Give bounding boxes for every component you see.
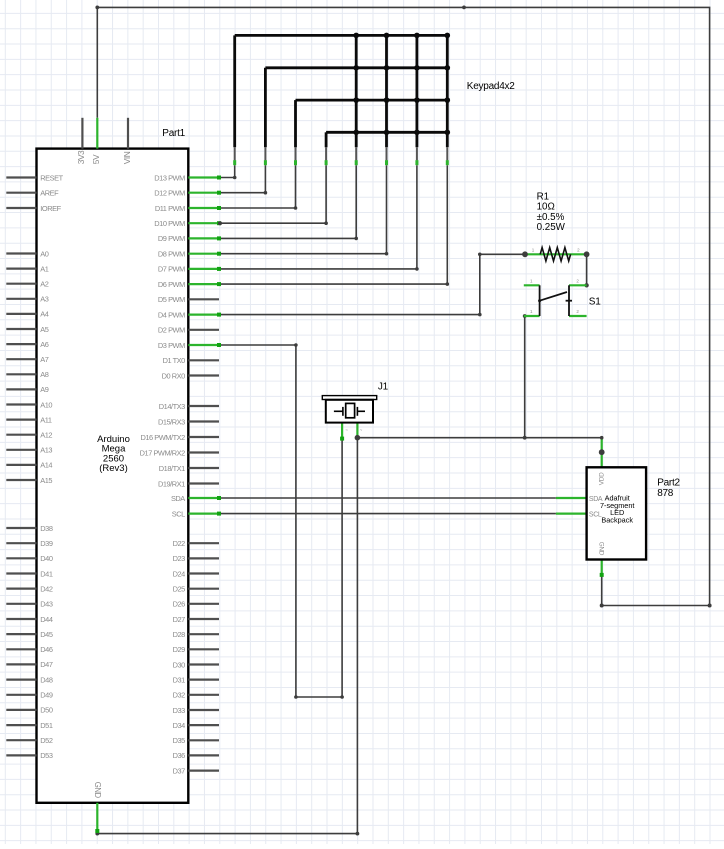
svg-text:D32: D32	[173, 691, 186, 700]
svg-text:A8: A8	[40, 370, 48, 379]
svg-text:A0: A0	[40, 249, 48, 258]
svg-text:D22: D22	[173, 539, 186, 548]
svg-text:D17 PWM/RX2: D17 PWM/RX2	[140, 448, 185, 457]
svg-text:D2 PWM: D2 PWM	[158, 326, 185, 335]
svg-text:D29: D29	[173, 645, 186, 654]
svg-text:A15: A15	[40, 476, 52, 485]
svg-text:A5: A5	[40, 325, 48, 334]
svg-text:A11: A11	[40, 415, 52, 424]
svg-text:D6 PWM: D6 PWM	[158, 280, 185, 289]
svg-text:Backpack: Backpack	[601, 516, 633, 525]
svg-text:D1 TX0: D1 TX0	[163, 356, 186, 365]
svg-text:A4: A4	[40, 310, 48, 319]
svg-text:D23: D23	[173, 554, 186, 563]
svg-text:D13 PWM: D13 PWM	[154, 173, 185, 182]
svg-text:5V: 5V	[91, 154, 101, 164]
svg-text:D11 PWM: D11 PWM	[155, 204, 185, 213]
svg-text:D0 RX0: D0 RX0	[162, 371, 186, 380]
svg-text:D4 PWM: D4 PWM	[158, 310, 185, 319]
svg-text:D19/RX1: D19/RX1	[158, 479, 185, 488]
svg-text:D10 PWM: D10 PWM	[154, 219, 185, 228]
svg-text:D43: D43	[40, 600, 53, 609]
svg-text:D33: D33	[173, 706, 186, 715]
svg-text:D38: D38	[40, 524, 53, 533]
svg-text:IOREF: IOREF	[40, 204, 61, 213]
svg-text:D3 PWM: D3 PWM	[158, 341, 185, 350]
svg-text:D25: D25	[173, 585, 186, 594]
svg-text:SCL: SCL	[589, 511, 602, 518]
svg-text:0.25W: 0.25W	[537, 222, 566, 233]
svg-text:Keypad4x2: Keypad4x2	[467, 81, 515, 92]
svg-text:D39: D39	[40, 539, 53, 548]
svg-text:~: ~	[360, 428, 363, 433]
svg-text:D37: D37	[173, 766, 186, 775]
svg-text:D35: D35	[173, 736, 186, 745]
svg-text:D9 PWM: D9 PWM	[158, 234, 185, 243]
svg-text:~: ~	[345, 428, 348, 433]
svg-text:D52: D52	[40, 736, 53, 745]
svg-text:GND: GND	[93, 782, 102, 799]
svg-text:Part2: Part2	[657, 477, 680, 488]
svg-text:(Rev3): (Rev3)	[99, 463, 128, 474]
svg-text:D18/TX1: D18/TX1	[159, 464, 185, 473]
svg-text:RESET: RESET	[40, 173, 63, 182]
svg-text:D31: D31	[173, 675, 186, 684]
svg-text:D44: D44	[40, 615, 53, 624]
svg-text:D16 PWM/TX2: D16 PWM/TX2	[140, 433, 185, 442]
svg-text:A14: A14	[40, 461, 52, 470]
svg-text:AREF: AREF	[40, 189, 59, 198]
svg-text:D36: D36	[173, 751, 186, 760]
svg-text:J1: J1	[378, 382, 389, 393]
svg-text:D45: D45	[40, 630, 53, 639]
svg-text:D15/RX3: D15/RX3	[158, 417, 185, 426]
svg-text:D41: D41	[40, 569, 53, 578]
svg-text:A10: A10	[40, 400, 52, 409]
svg-text:S1: S1	[589, 297, 601, 308]
svg-text:A6: A6	[40, 340, 48, 349]
svg-text:VDD: VDD	[598, 472, 605, 485]
svg-text:A13: A13	[40, 446, 52, 455]
svg-text:Part1: Part1	[162, 128, 185, 139]
svg-text:A7: A7	[40, 355, 48, 364]
svg-text:D46: D46	[40, 645, 53, 654]
svg-text:D7 PWM: D7 PWM	[158, 265, 185, 274]
svg-text:A2: A2	[40, 280, 48, 289]
svg-text:D26: D26	[173, 600, 186, 609]
svg-text:A9: A9	[40, 385, 48, 394]
svg-text:D28: D28	[173, 630, 186, 639]
svg-text:SCL: SCL	[172, 509, 185, 518]
svg-text:GND: GND	[598, 542, 605, 556]
svg-text:D8 PWM: D8 PWM	[158, 249, 185, 258]
svg-text:878: 878	[657, 488, 674, 499]
svg-text:D49: D49	[40, 691, 53, 700]
svg-text:A1: A1	[40, 264, 48, 273]
svg-text:D51: D51	[40, 721, 53, 730]
svg-text:D48: D48	[40, 675, 53, 684]
svg-text:SDA: SDA	[171, 494, 185, 503]
svg-text:D5 PWM: D5 PWM	[158, 295, 185, 304]
svg-text:D12 PWM: D12 PWM	[154, 189, 185, 198]
svg-text:D42: D42	[40, 584, 53, 593]
svg-text:D47: D47	[40, 660, 53, 669]
svg-text:D34: D34	[173, 721, 186, 730]
svg-text:D24: D24	[173, 569, 186, 578]
svg-text:A12: A12	[40, 431, 52, 440]
svg-text:VIN: VIN	[122, 151, 132, 164]
svg-text:D30: D30	[173, 660, 186, 669]
svg-text:3V3: 3V3	[76, 150, 86, 164]
svg-text:D27: D27	[173, 615, 186, 624]
svg-text:A3: A3	[40, 295, 48, 304]
svg-text:D50: D50	[40, 706, 53, 715]
svg-text:D14/TX3: D14/TX3	[159, 402, 185, 411]
svg-text:D53: D53	[40, 751, 53, 760]
svg-text:D40: D40	[40, 554, 53, 563]
